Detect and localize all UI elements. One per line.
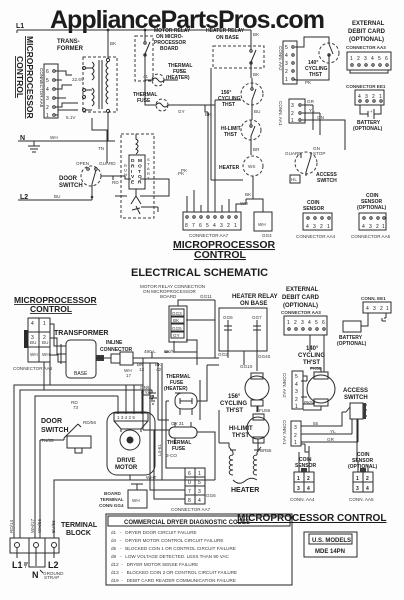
svg-text:BOARD: BOARD [160,46,179,52]
wire right side down chain [175,365,257,401]
thermal fuse (schematic) [169,421,197,444]
wires heater to thst chain [219,410,258,447]
svg-text:BR: BR [253,147,260,152]
svg-text:GR: GR [327,437,335,442]
svg-text:73: 73 [73,405,79,410]
battery BT1 (top) [360,105,381,119]
svg-text:6: 6 [188,471,191,477]
diagnostic codes table [106,514,292,585]
wire AA3 pin6 down [310,335,324,372]
svg-text:4: 4 [46,87,49,93]
svg-text:HL: HL [291,177,297,182]
svg-text:BK: BK [245,192,252,197]
svg-text:1: 1 [43,321,46,327]
svg-text:HEATER RELAY: HEATER RELAY [232,294,278,300]
svg-text:1: 1 [295,404,298,410]
svg-text:3-CO: 3-CO [166,453,177,458]
svg-text:4: 4 [308,320,311,326]
wires AA1 to access switch [302,105,345,150]
svg-text:DRIVE: DRIVE [117,458,135,464]
svg-text:FORMER: FORMER [57,46,84,52]
svg-text:4: 4 [362,224,365,230]
svg-text:2: 2 [376,224,379,230]
svg-text:8: 8 [185,223,188,229]
svg-text:4: 4 [307,486,310,492]
svg-text:2: 2 [307,476,310,482]
thermal fuse F2 [150,99,208,114]
svg-text:STRAP: STRAP [44,575,59,580]
svg-text:3: 3 [198,489,201,495]
connector AA5 (schematic) [353,460,373,492]
svg-text:YL: YL [309,108,315,113]
svg-text:EXTERNAL: EXTERNAL [352,21,385,27]
140 cycling thermostat TH3 [319,43,339,63]
svg-text:TN: TN [98,146,104,151]
svg-text:d12 - DRYER MOTOR SENSE FAI: d12 - DRYER MOTOR SENSE FAILURE [111,562,198,567]
ground at N [28,141,40,152]
connector EE1 (schematic) [363,302,391,313]
svg-text:d4 - DRYER MOTOR CONTROL C: d4 - DRYER MOTOR CONTROL CIRCUIT FAILURE [111,538,223,543]
svg-text:EXTERNAL: EXTERNAL [286,287,319,293]
heater HTR1 [243,156,263,199]
svg-text:GG5: GG5 [172,326,182,331]
svg-text:BOARD: BOARD [160,294,177,299]
access switch S2 [285,146,325,176]
svg-text:4: 4 [31,321,34,327]
svg-text:PK: PK [181,168,188,173]
U.S. models box [304,532,357,557]
svg-text:FUSE: FUSE [172,446,186,452]
heater element (schematic) [229,447,261,483]
svg-text:CONN. AA1: CONN. AA1 [282,420,287,445]
svg-text:d9 - LOW VOLTAGE DETECTED.: d9 - LOW VOLTAGE DETECTED. LESS THAN 90 … [111,554,230,559]
svg-text:1: 1 [327,224,330,230]
heater relay (schematic) box [219,308,267,351]
door switch (schematic) [40,420,96,453]
svg-text:d5 - BLOCKED COIN 1 OR CON: d5 - BLOCKED COIN 1 OR CONTROL CIRCUIT F… [111,546,236,551]
svg-text:THST: THST [224,132,237,138]
svg-text:BU: BU [30,340,36,345]
svg-text:3: 3 [356,486,359,492]
svg-text:1: 1 [287,320,290,326]
svg-text:L4-61: L4-61 [157,444,162,456]
svg-text:COMMERCIAL DRYER DIAGNOSTIC CO: COMMERCIAL DRYER DIAGNOSTIC CODES [124,520,250,526]
wire thermal fuse to motor [143,420,215,480]
svg-text:GY: GY [176,68,183,73]
svg-text:GG6: GG6 [223,315,233,320]
wire L1 top rail [17,30,251,33]
svg-text:1 3 4 2 5: 1 3 4 2 5 [117,415,135,420]
svg-text:GUARD: GUARD [99,161,116,166]
svg-text:BR55: BR55 [260,448,272,453]
wire AA2 pin5 to 140thst [295,37,329,80]
svg-text:+: + [370,109,373,114]
svg-text:WS: WS [248,164,255,169]
svg-text:GG4: GG4 [262,233,272,238]
access switch (schematic) [342,403,367,419]
svg-text:WH: WH [240,201,248,206]
svg-text:6: 6 [199,223,202,229]
connector AA7 (schematic) grid [185,468,205,504]
svg-text:3: 3 [373,306,376,312]
svg-text:BK: BK [110,41,117,46]
svg-text:1: 1 [382,224,385,230]
HL tag [290,175,300,183]
svg-text:1: 1 [294,440,297,446]
svg-text:OPEN: OPEN [76,161,89,166]
svg-text:WH: WH [258,222,266,227]
svg-text:1: 1 [285,77,288,83]
svg-text:CYCLING: CYCLING [298,353,325,359]
microprocessor control heading (vertical) [15,36,35,119]
board terminal GG4 box [128,484,147,508]
svg-text:SWITCH: SWITCH [59,183,83,189]
svg-text:ON BASE: ON BASE [216,35,239,41]
svg-text:6: 6 [385,56,388,62]
svg-text:55: 55 [313,421,319,426]
wire board label GG11 [178,300,215,308]
svg-text:(OPTIONAL): (OPTIONAL) [353,126,382,132]
svg-text:HEATER: HEATER [231,487,259,494]
wires motor top [118,385,142,414]
svg-text:BOARD: BOARD [104,491,122,496]
svg-text:INLINE: INLINE [106,340,123,346]
svg-text:3: 3 [369,224,372,230]
svg-text:156°: 156° [228,394,241,400]
svg-text:4: 4 [306,224,309,230]
wire L2 rail [18,197,92,200]
svg-text:GY: GY [178,109,185,114]
svg-text:CONNECTOR AA3: CONNECTOR AA3 [346,45,386,50]
transformer T1 [83,30,118,118]
connector AA4 (schematic) [294,446,314,492]
svg-text:RUN: RUN [124,163,127,177]
svg-text:THST: THST [309,72,322,78]
svg-text:5: 5 [46,78,49,84]
svg-text:CONNECTOR AA5: CONNECTOR AA5 [351,234,391,239]
140 cycling thst (schematic) [301,372,335,406]
svg-text:MICROPROCESSOR: MICROPROCESSOR [25,36,35,119]
svg-text:GG2: GG2 [218,352,228,357]
svg-text:SWITCH: SWITCH [41,427,69,434]
svg-text:5: 5 [285,45,288,51]
thermal fuse (heater) F1 [143,68,183,86]
svg-text:L2: L2 [48,560,59,570]
svg-text:TH'ST: TH'ST [226,408,243,414]
motor relay board (schematic) [169,306,187,342]
svg-text:GY: GY [173,333,180,338]
extra schematic verticals [150,363,185,499]
connector AA3 (top) [347,52,391,73]
svg-text:N: N [32,570,39,580]
svg-text:CONN. EE1: CONN. EE1 [361,296,386,301]
wire WH to GG4 [246,199,263,212]
svg-text:7: 7 [192,223,195,229]
svg-text:3: 3 [297,486,300,492]
svg-text:3: 3 [291,103,294,109]
svg-text:GN: GN [317,115,324,120]
svg-text:WH: WH [132,498,140,503]
svg-text:490-L: 490-L [144,349,156,354]
svg-text:BU: BU [42,340,48,345]
svg-text:MICROPROCESSOR CONTROL: MICROPROCESSOR CONTROL [237,513,386,524]
hi-limit thst (schematic) [247,406,272,453]
svg-text:WH/56: WH/56 [37,519,42,533]
svg-text:2: 2 [285,69,288,75]
svg-text:BLOCK: BLOCK [66,530,91,537]
svg-text:ELECTRICAL SCHEMATIC: ELECTRICAL SCHEMATIC [131,267,268,279]
svg-text:RD/14: RD/14 [9,520,14,533]
wire transformer to door switch [92,118,108,163]
svg-text:8: 8 [188,498,191,504]
svg-text:42: 42 [156,367,162,372]
svg-text:TERMINAL: TERMINAL [100,497,124,502]
svg-text:(HEATER): (HEATER) [164,386,188,392]
svg-text:1: 1 [350,56,353,62]
svg-text:5.1V: 5.1V [66,115,76,120]
svg-text:CONN. AA1: CONN. AA1 [278,101,283,126]
svg-text:d13 - BLOCKED COIN 2 OR CON: d13 - BLOCKED COIN 2 OR CONTROL CIRCUIT … [111,570,237,575]
svg-text:(OPTIONAL): (OPTIONAL) [357,205,386,211]
connector AA2 [283,41,297,84]
svg-text:RD: RD [112,180,119,185]
svg-text:YL: YL [330,429,336,434]
connector AA8 (schematic) [24,318,50,362]
thermal fuse heater (schematic) [175,393,197,415]
svg-text:L1: L1 [12,560,23,570]
connector AA4 (top) [303,213,332,230]
svg-text:L1: L1 [16,23,24,30]
svg-text:DOOR: DOOR [41,418,62,425]
svg-text:3: 3 [46,96,49,102]
svg-text:5: 5 [295,374,298,380]
svg-text:3: 3 [285,61,288,67]
svg-text:CONN. AA4: CONN. AA4 [290,497,315,502]
svg-text:2: 2 [295,397,298,403]
svg-text:0: 0 [188,480,191,486]
svg-text:TERMINAL: TERMINAL [61,522,98,529]
svg-text:4: 4 [358,94,361,100]
svg-text:WH: WH [50,135,58,140]
motor relay K1 [135,30,153,81]
svg-text:3: 3 [295,389,298,395]
svg-text:GG6: GG6 [206,493,216,498]
svg-text:ACCESS: ACCESS [343,388,368,394]
svg-text:CONN. AA2: CONN. AA2 [282,373,287,398]
svg-text:3: 3 [365,94,368,100]
svg-text:BASE: BASE [74,371,88,377]
connector AA2 (schematic) [292,371,303,410]
svg-text:SENSOR: SENSOR [303,206,325,212]
svg-text:HEATER: HEATER [219,165,240,171]
svg-text:BK: BK [253,72,260,77]
wire N rail [18,140,115,142]
svg-text:GG40: GG40 [258,354,271,359]
svg-text:CYCLING: CYCLING [220,401,247,407]
connector AA3 (schematic) [284,316,327,335]
svg-text:MOTOR: MOTOR [115,465,138,471]
svg-text:CONTROL: CONTROL [194,249,246,261]
svg-text:HEATER RELAY: HEATER RELAY [206,28,245,34]
svg-text:GG7: GG7 [252,315,262,320]
transformer (schematic) [50,324,104,378]
svg-text:TH'ST: TH'ST [232,433,249,439]
connector AA1 (schematic) [291,421,301,446]
svg-text:BK: BK [253,32,260,37]
svg-text:140°: 140° [306,346,319,352]
svg-text:1: 1 [297,476,300,482]
svg-text:DEBIT CARD: DEBIT CARD [282,295,320,301]
svg-text:BK/N: BK/N [164,349,175,354]
wire heater branch left [211,68,243,180]
svg-text:TRANSFORMER: TRANSFORMER [54,330,108,337]
svg-text:WH: WH [42,352,50,357]
svg-text:SWITCH: SWITCH [317,178,337,184]
svg-text:3: 3 [294,425,297,431]
connector AA7 strip [183,212,241,230]
svg-text:2: 2 [320,224,323,230]
svg-text:d19 - DEBIT CARD READER COM: d19 - DEBIT CARD READER COMMUNICATION FA… [111,578,236,583]
svg-text:GY 31: GY 31 [171,421,184,426]
svg-text:WH: WH [30,352,38,357]
svg-text:CONN. AA5: CONN. AA5 [349,497,374,502]
svg-text:(OPTIONAL): (OPTIONAL) [283,303,318,309]
svg-text:1: 1 [234,223,237,229]
wire door sw to motor [115,176,169,207]
svg-text:4: 4 [295,382,298,388]
connector AA1 [289,99,305,124]
svg-text:2: 2 [357,56,360,62]
svg-text:PK: PK [305,80,312,85]
svg-text:13: 13 [139,367,145,372]
connector EE1 (top) [355,90,384,105]
svg-text:4: 4 [366,306,369,312]
svg-text:1: 1 [46,113,49,119]
ground GY/L [143,395,157,404]
main schematic wires [44,362,50,390]
svg-text:STOP: STOP [313,151,325,156]
svg-text:3: 3 [313,224,316,230]
svg-text:4: 4 [371,56,374,62]
wires into AA7 [187,100,246,212]
svg-text:ON BASE: ON BASE [240,301,267,307]
svg-text:DOOR: DOOR [59,176,78,182]
svg-text:2: 2 [294,320,297,326]
svg-text:3: 3 [220,223,223,229]
svg-text:4: 4 [198,498,201,504]
svg-text:CONN GG4: CONN GG4 [99,503,124,508]
svg-text:GN/L: GN/L [140,385,151,390]
svg-text:CONTROL: CONTROL [15,56,25,98]
terminal block [10,538,59,567]
svg-text:CONN. AA2: CONN. AA2 [278,46,283,71]
svg-text:1: 1 [379,94,382,100]
svg-text:2: 2 [227,223,230,229]
svg-text:2: 2 [380,306,383,312]
svg-text:U.S. MODELS: U.S. MODELS [312,538,351,544]
svg-text:GG11: GG11 [200,294,212,299]
svg-text:GR: GR [307,99,315,104]
svg-text:1: 1 [386,306,389,312]
wire AA2 to 140thst [303,368,321,410]
svg-text:CONNECTOR AA3: CONNECTOR AA3 [281,310,321,315]
ground near motor [142,390,156,399]
wire relay to fuses [145,66,150,105]
svg-text:FUSE: FUSE [137,98,151,104]
svg-text:3: 3 [301,320,304,326]
svg-text:1: 1 [291,118,294,124]
svg-text:2: 2 [372,94,375,100]
svg-text:6: 6 [322,320,325,326]
svg-text:6: 6 [46,69,49,75]
svg-text:4: 4 [285,53,288,59]
svg-text:5: 5 [315,320,318,326]
inline connector [104,352,143,365]
svg-text:BK: BK [205,112,212,117]
drive motor M1 (dashed box) [121,134,154,218]
svg-text:HI-LIMIT: HI-LIMIT [229,426,253,432]
svg-text:5: 5 [198,480,201,486]
svg-text:BK: BK [173,318,180,323]
heater relay K2 [213,30,264,78]
svg-text:CONNECTOR AA7: CONNECTOR AA7 [189,233,229,238]
svg-text:BU: BU [54,194,60,199]
svg-text:2: 2 [366,476,369,482]
svg-text:3: 3 [364,56,367,62]
svg-text:BU/55: BU/55 [51,520,56,533]
wires heater relay out [219,330,257,370]
svg-text:4: 4 [213,223,216,229]
svg-text:CONNECTOR AA4: CONNECTOR AA4 [296,234,336,239]
svg-text:17: 17 [126,373,132,378]
svg-text:(OPTIONAL): (OPTIONAL) [349,37,384,43]
connector AA5 (top) [359,213,386,230]
wire top rail of schematic [96,357,143,359]
svg-text:2: 2 [46,105,49,111]
connector AA8 block [44,64,58,119]
wire WHT under motor [130,475,162,480]
wire motor relay to thermal fuse heater chain [174,300,219,420]
svg-text:1: 1 [198,471,201,477]
battery (schematic) [343,313,386,332]
svg-text:CONTROL: CONTROL [30,304,72,314]
svg-text:WHT: WHT [146,475,157,480]
wires AA1 to access switch (schematic) [301,412,358,442]
svg-text:GG3: GG3 [172,311,182,316]
wire access switch down to coin sensor optional [301,419,357,460]
svg-text:41: 41 [143,74,149,79]
svg-text:BU: BU [254,109,260,114]
svg-text:DEBIT CARD: DEBIT CARD [348,29,386,35]
wire AA8 to transformer [55,71,78,115]
hi-limit thermostat TH2 [241,120,261,155]
GG4 box [254,212,272,231]
svg-text:FU56: FU56 [259,408,271,413]
svg-text:5: 5 [206,223,209,229]
svg-text:CONNECTOR AA7: CONNECTOR AA7 [171,507,211,512]
svg-text:5: 5 [378,56,381,62]
svg-text:CONNECTOR AA8: CONNECTOR AA8 [13,366,53,371]
svg-text:THST: THST [222,102,235,108]
svg-text:2: 2 [291,111,294,117]
svg-text:7: 7 [188,489,191,495]
wire inline connector to board [133,352,215,430]
svg-text:TRANS-: TRANS- [57,39,80,45]
svg-text:2: 2 [294,433,297,439]
svg-text:1: 1 [356,476,359,482]
svg-text:RD/56: RD/56 [83,420,96,425]
wires terminal block up [14,385,143,538]
